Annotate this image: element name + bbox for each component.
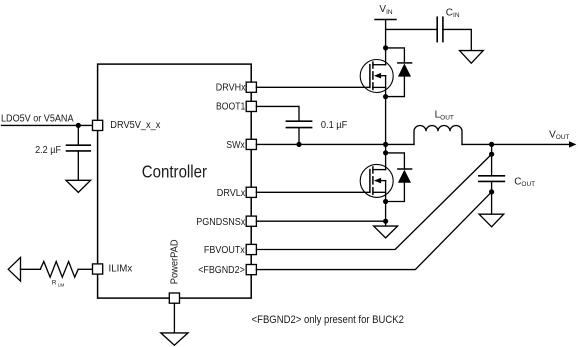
svg-text:FBVOUTx: FBVOUTx bbox=[204, 245, 245, 256]
diode D1 high-side body diode bbox=[383, 48, 412, 99]
Q1 drain lead bbox=[373, 64, 386, 66]
node VOUT junction bbox=[489, 142, 494, 147]
ground below PowerPAD bbox=[161, 333, 188, 345]
D1 cathode bar bbox=[398, 62, 412, 64]
svg-text:Controller: Controller bbox=[142, 162, 207, 182]
pin PGNDSNSx bbox=[246, 216, 256, 226]
svg-text:2.2 µF: 2.2 µF bbox=[35, 145, 61, 156]
Q1 channel dashes bbox=[372, 62, 374, 89]
Q2 body lead bbox=[378, 180, 386, 182]
wire cap C bypass lead bbox=[77, 125, 79, 145]
node boot cap / SW junction bbox=[296, 142, 301, 147]
D2 branch from drain bbox=[386, 153, 405, 169]
controller box U1 bbox=[98, 64, 252, 298]
ground below COUT bbox=[479, 214, 504, 227]
pin DRV5V_x_x bbox=[93, 120, 103, 130]
wire cap to ground bbox=[77, 151, 79, 180]
wire PGNDSNSx to power ground bbox=[256, 220, 385, 222]
Q2 channel dashes bbox=[372, 167, 374, 194]
wire VIN branch to CIN bbox=[386, 28, 438, 30]
svg-text:BOOT1: BOOT1 bbox=[216, 102, 246, 113]
wire DRVLx to low-side gate bbox=[256, 191, 370, 193]
node FBGND sense junction bbox=[489, 189, 494, 194]
node FBVOUT sense junction bbox=[489, 152, 494, 157]
wire VOUT to COUT bbox=[491, 144, 493, 175]
wire resistor to ILIMx pin bbox=[78, 268, 92, 270]
D1 branch from drain bbox=[386, 48, 405, 63]
svg-text:DRVHx: DRVHx bbox=[216, 83, 246, 94]
diode D2 low-side body diode bbox=[383, 153, 412, 204]
Q2 source lead bbox=[373, 191, 386, 193]
svg-text:DRVLx: DRVLx bbox=[217, 188, 246, 199]
node PGND junction bbox=[383, 219, 388, 224]
ground power ground symbol bbox=[374, 226, 398, 238]
svg-text:PowerPAD: PowerPAD bbox=[169, 239, 180, 284]
capacitor COUT bbox=[479, 176, 505, 182]
Q2 drain vertical bbox=[385, 144, 387, 169]
transistor Q2 low-side MOSFET bbox=[360, 144, 393, 226]
VIN terminal bar bbox=[375, 19, 396, 21]
capacitor 0.1uF bbox=[286, 121, 311, 127]
resistor R_ILIM bbox=[40, 262, 78, 278]
VOUT arrowhead bbox=[569, 141, 576, 147]
pin FBGND2 bbox=[246, 265, 256, 275]
Q2 body arrow bbox=[374, 178, 381, 184]
wire SWx to inductor bbox=[256, 143, 414, 145]
svg-text:LIM: LIM bbox=[58, 282, 65, 287]
wire DRVHx to high-side gate bbox=[256, 86, 370, 88]
wire arrow to resistor bbox=[21, 268, 41, 270]
Q1 body arrow bbox=[374, 73, 381, 79]
inductor LOUT bbox=[414, 126, 462, 145]
pin DRVLx bbox=[246, 187, 256, 197]
D2 triangle bbox=[398, 170, 411, 183]
wire CIN to ground bbox=[443, 29, 471, 50]
wire BOOT1 to bootstrap cap bbox=[256, 106, 299, 121]
svg-text:<FBGND2> only present for BUCK: <FBGND2> only present for BUCK2 bbox=[252, 314, 404, 326]
node SW junction bbox=[383, 142, 388, 147]
wire FBGND2 sense bbox=[256, 192, 491, 270]
wire PowerPAD to ground bbox=[173, 303, 175, 333]
svg-text:SWx: SWx bbox=[226, 140, 245, 151]
wire FBVOUTx sense bbox=[256, 154, 491, 249]
Q1 source lead bbox=[373, 86, 386, 88]
ground below CIN bbox=[460, 51, 484, 64]
Q1 body lead bbox=[378, 75, 386, 77]
capacitor 2.2uF bbox=[67, 145, 91, 151]
D2 cathode bar bbox=[398, 168, 412, 170]
svg-text:0.1 µF: 0.1 µF bbox=[321, 120, 347, 131]
node D1 anode junction bbox=[383, 94, 388, 99]
pin SWx bbox=[246, 139, 256, 149]
ground below 2.2uF bbox=[66, 180, 91, 192]
Q2 source vertical to ground bbox=[385, 181, 387, 227]
svg-text:ILIMx: ILIMx bbox=[109, 263, 133, 274]
D1 anode to source bbox=[386, 77, 405, 97]
capacitor CIN bbox=[437, 17, 443, 41]
pin PowerPAD bbox=[169, 293, 179, 303]
Q2 body circle bbox=[360, 164, 393, 197]
wire VIN down bbox=[385, 20, 387, 65]
wire COUT to ground bbox=[491, 181, 493, 214]
wire LDO5V input to DRV5V pin bbox=[2, 124, 93, 126]
node VIN / high-side drain junction bbox=[383, 45, 388, 50]
pin FBVOUTx bbox=[246, 244, 256, 254]
pin ILIMx bbox=[93, 264, 103, 274]
input terminal arrow (ILIM) bbox=[8, 257, 20, 281]
svg-text:PGNDSNSx: PGNDSNSx bbox=[196, 217, 245, 228]
node D2 anode junction bbox=[383, 199, 388, 204]
D1 triangle bbox=[398, 64, 411, 77]
pin DRVHx bbox=[246, 82, 256, 92]
svg-text:LDO5V or V5ANA: LDO5V or V5ANA bbox=[1, 114, 74, 125]
node SW to low-side drain dot bbox=[383, 150, 388, 155]
Q2 gate bar bbox=[369, 170, 371, 193]
Q2 drain lead bbox=[373, 169, 386, 171]
wire bootstrap cap to SW bbox=[298, 128, 300, 145]
pin BOOT1 bbox=[246, 101, 256, 111]
Q1 gate bar bbox=[369, 65, 371, 88]
Q1 source vertical bbox=[385, 76, 387, 145]
D2 anode to source bbox=[386, 183, 405, 202]
wire LOUT to VOUT bbox=[462, 143, 571, 145]
transistor Q1 high-side MOSFET bbox=[360, 60, 393, 145]
Q1 body circle bbox=[360, 60, 393, 93]
node LDO5V junction dot bbox=[76, 123, 81, 128]
svg-text:DRV5V_x_x: DRV5V_x_x bbox=[110, 120, 160, 131]
svg-text:R: R bbox=[52, 280, 57, 287]
svg-text:<FBGND2>: <FBGND2> bbox=[198, 265, 245, 276]
